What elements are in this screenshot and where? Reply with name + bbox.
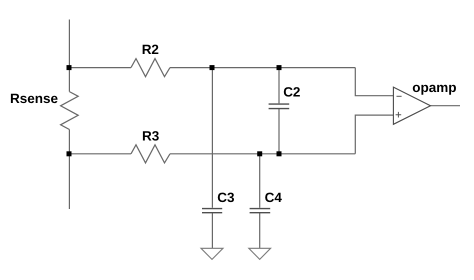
node junction bottom rail / C2 — [277, 151, 282, 156]
capacitor C3 — [202, 209, 222, 213]
wire C2 bottom lead — [278, 109, 280, 154]
wire left vertical bottom segment — [68, 130, 70, 210]
wire C2 top lead — [278, 68, 280, 104]
wire top rail left — [69, 67, 131, 69]
wire C3 to ground — [211, 213, 213, 248]
node junction at Rsense top / top rail — [67, 65, 72, 70]
svg-text:Rsense: Rsense — [10, 91, 59, 106]
wire left vertical top segment — [68, 20, 70, 92]
resistor R3 — [131, 145, 170, 163]
svg-text:C2: C2 — [283, 84, 300, 99]
node junction bottom rail / C4 — [257, 151, 262, 156]
svg-text:opamp: opamp — [412, 80, 456, 95]
node junction at Rsense bottom / bottom rail — [67, 151, 72, 156]
ground under C4 — [249, 248, 271, 259]
node junction top rail / C2 — [277, 65, 282, 70]
ground under C3 — [201, 248, 223, 259]
wire non-inverting input (bottom rail to op-amp) — [355, 115, 393, 154]
wire top rail right — [170, 67, 355, 69]
wire C4 top lead — [259, 154, 261, 208]
svg-text:C3: C3 — [217, 190, 235, 205]
wire C3 branch from top rail — [211, 68, 213, 208]
node junction top rail / C3 branch — [210, 65, 215, 70]
svg-text:R2: R2 — [142, 42, 159, 57]
svg-text:C4: C4 — [265, 190, 283, 205]
svg-text:R3: R3 — [142, 129, 160, 144]
wire inverting input (top rail to op-amp) — [355, 68, 393, 96]
wire op-amp output — [431, 105, 461, 107]
wire bottom rail left — [69, 153, 131, 155]
resistor R2 — [131, 59, 170, 77]
wire C4 to ground — [259, 213, 261, 248]
capacitor C2 — [269, 104, 290, 109]
wire bottom rail right — [170, 153, 355, 155]
op-amp U1 — [393, 87, 430, 124]
resistor Rsense — [61, 92, 79, 130]
capacitor C4 — [250, 209, 271, 213]
